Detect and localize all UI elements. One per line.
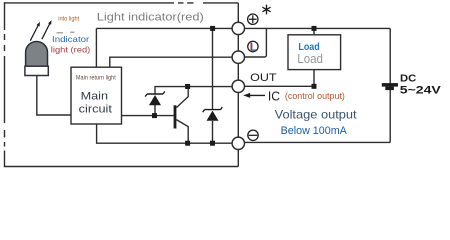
svg-text:light (red): light (red): [51, 45, 91, 54]
svg-text:Main: Main: [81, 91, 108, 103]
svg-text:Light indicator(red): Light indicator(red): [97, 11, 204, 23]
svg-text:OUT: OUT: [250, 72, 277, 84]
svg-text:DC: DC: [400, 72, 417, 84]
svg-text:Indicator: Indicator: [52, 35, 90, 44]
svg-text:Load: Load: [298, 42, 319, 53]
svg-text:Load: Load: [297, 52, 323, 66]
svg-text:5~24V: 5~24V: [400, 84, 442, 96]
svg-text:circuit: circuit: [79, 104, 113, 116]
svg-text:Main return light: Main return light: [76, 76, 116, 82]
svg-text:Below 100mA: Below 100mA: [281, 125, 348, 137]
svg-text:IC: IC: [268, 89, 280, 104]
svg-text:Voltage output: Voltage output: [275, 108, 358, 122]
svg-text:(control output): (control output): [285, 91, 345, 101]
svg-text:into light: into light: [58, 15, 79, 22]
